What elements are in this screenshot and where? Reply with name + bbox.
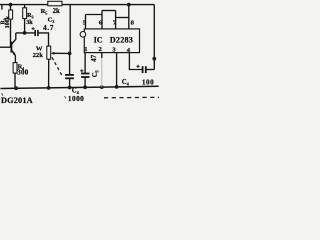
capacitor C5 47 (polarized, on pin 1) [81,73,89,75]
svg-text:100: 100 [142,78,154,86]
stray mark [65,96,66,99]
pin 6 [101,11,103,29]
node: wiper/riser/C4 junction [68,52,72,56]
wire: loop pins 6-7 [102,10,116,12]
wire: link pins 7-8 [116,17,129,19]
node: R3/collector junction [23,31,27,35]
svg-text:300: 300 [17,68,28,76]
node: on right drop wire [152,57,156,61]
wire: C3 to pot top [38,33,49,46]
wire: riser from top rail to wiper node [69,5,71,54]
svg-text:R₅: R₅ [41,8,48,15]
node: emitter to rail [14,86,18,90]
svg-text:D2283: D2283 [110,35,133,44]
ground bottom rail [0,86,158,88]
resistor R5 2k (on rail) [48,1,62,6]
wire: top-left feed stub [1,5,3,10]
potentiometer W 22k [47,46,51,59]
wire: right-end drop of top rail [153,5,155,70]
pin 2 [101,53,103,58]
wire: wiper to C4 node [54,52,70,54]
pin 1 [84,53,86,74]
dashed link from pot [52,57,63,77]
pin 8 [128,5,130,29]
wire: +V top rail [0,4,154,6]
resistor R2 100k [10,5,12,10]
resistor R3 3k [24,5,26,8]
dashed line bottom right [104,96,159,99]
svg-text:C₄: C₄ [122,79,129,86]
node: C4 to rail [68,86,72,90]
caption 3DG201A [2,93,3,95]
wire: link pins 5-6 [86,14,103,16]
capacitor C3 4.7 (polarized, series) [34,30,36,36]
capacitor C4 1000 [69,53,71,75]
node: pin2 wire to rail [100,85,104,89]
node: pin8 riser to rail [127,3,131,7]
svg-text:1000: 1000 [68,94,84,103]
pin 7 [115,11,117,29]
svg-text:4.7: 4.7 [43,23,54,32]
node: C5 to rail [83,85,87,89]
node: pot bottom to rail [47,86,51,90]
svg-text:C₅: C₅ [91,70,99,77]
wire: input to base [0,46,11,48]
svg-text:22k: 22k [33,52,44,59]
resistor R4 300 [13,63,17,74]
pin 5 [85,15,87,29]
pin 3 [116,53,118,87]
IC notch [80,32,86,38]
transistor Q1 3DG201A [10,42,12,53]
svg-text:47: 47 [90,54,98,62]
svg-text:100k: 100k [5,15,11,28]
svg-text:DG201A: DG201A [1,96,33,105]
node: pin3 wire to rail [115,85,119,89]
svg-text:1: 1 [84,46,87,53]
svg-text:IC: IC [94,35,103,44]
node: R2 to rail [9,3,13,7]
capacitor C4 100 (polarized, on pin 4) [142,66,144,73]
svg-text:2k: 2k [53,8,60,15]
svg-text:3k: 3k [26,19,33,26]
wire: collector node to C3 [16,32,35,34]
pin 4 [129,53,142,70]
IC U1 D2283 [84,29,139,53]
